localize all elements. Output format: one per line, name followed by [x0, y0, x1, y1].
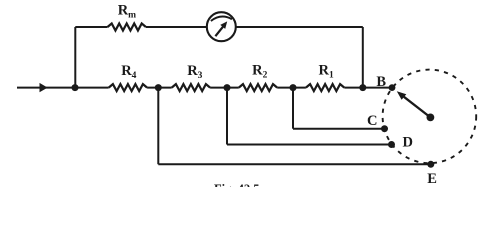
- wire top branch riser right: [362, 27, 364, 88]
- galvanometer scale arc: [211, 17, 232, 21]
- input arrowhead: [40, 83, 48, 92]
- junction node R1/top-branch: [359, 84, 366, 91]
- selector wiper arrowhead: [397, 91, 407, 99]
- resistor R4: [109, 84, 147, 91]
- wire galvanometer to right corner: [236, 26, 363, 28]
- svg-text:Fig. 42.5: Fig. 42.5: [214, 182, 259, 187]
- junction node R3/R2: [224, 84, 231, 91]
- junction node R4/R3: [155, 84, 162, 91]
- contact B: [389, 84, 396, 91]
- galvanometer needle arrowhead: [220, 21, 227, 29]
- galvanometer G body: [207, 12, 236, 41]
- junction node R2/R1: [290, 84, 297, 91]
- selector dial dashed circle: [383, 70, 477, 164]
- svg-text:Rm: Rm: [118, 2, 136, 20]
- svg-text:E: E: [427, 171, 437, 187]
- resistor Rm: [108, 24, 146, 31]
- svg-text:C: C: [367, 113, 377, 129]
- wire top branch riser left: [74, 27, 76, 88]
- svg-text:D: D: [403, 134, 413, 150]
- wire C branch vertical: [292, 88, 294, 129]
- wire R3 to R2: [210, 87, 239, 89]
- wire D branch vertical: [226, 88, 228, 145]
- resistor R3: [172, 84, 210, 91]
- resistor R1: [306, 84, 344, 91]
- contact C: [381, 125, 388, 132]
- svg-text:R3: R3: [187, 63, 202, 81]
- contact E: [427, 161, 434, 168]
- selector wiper arm: [404, 97, 431, 118]
- svg-text:B: B: [376, 74, 386, 90]
- wiper pivot node: [427, 114, 435, 122]
- wire input segment left: [17, 87, 109, 89]
- svg-text:R4: R4: [121, 63, 136, 81]
- wire E branch horizontal: [158, 163, 431, 165]
- resistor R2: [239, 84, 277, 91]
- galvanometer needle: [215, 26, 223, 36]
- svg-text:R1: R1: [319, 63, 334, 81]
- wire R1 to contact B: [344, 87, 392, 89]
- wire D branch horizontal: [227, 144, 392, 146]
- svg-text:R2: R2: [252, 63, 267, 81]
- wire top branch to Rm: [75, 26, 107, 28]
- contact D: [388, 141, 395, 148]
- wire E branch vertical: [157, 88, 159, 165]
- wire Rm to galvanometer: [146, 26, 207, 28]
- junction node at input: [72, 84, 79, 91]
- wire R4 to R3: [147, 87, 172, 89]
- wire C branch horizontal: [293, 128, 385, 130]
- wire R2 to R1: [277, 87, 306, 89]
